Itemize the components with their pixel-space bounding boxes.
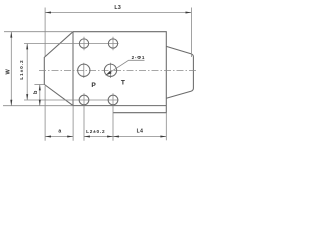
center tick bottom-right hole: [112, 93, 114, 107]
ext line bottom x=84: [83, 107, 85, 141]
svg-text:a: a: [58, 129, 61, 135]
dimension W line: [10, 32, 12, 106]
main centerline (dash-dot): [39, 70, 197, 72]
arrow L4 right: [160, 136, 166, 138]
bolt hole top-left: [79, 39, 88, 48]
arrow W top: [10, 32, 12, 38]
arrow leader 2-phi1: [106, 71, 112, 75]
arrow a right: [67, 136, 73, 138]
arrow L1 top: [26, 44, 28, 50]
arrow W bottom: [10, 100, 12, 106]
ext line W top: [4, 31, 73, 33]
arrow a left: [45, 136, 51, 138]
center tick port P: [83, 63, 85, 78]
ext line bottom x=73: [72, 106, 74, 141]
arrow L2 left: [84, 136, 90, 138]
arrow L3 right: [186, 12, 192, 14]
center tick bottom-left hole: [83, 93, 85, 107]
center tick top-right hole: [112, 37, 114, 51]
ext line bottom x=45: [44, 86, 46, 141]
svg-text:P: P: [91, 82, 96, 89]
dimension b line: [39, 85, 41, 106]
bolt hole top-right: [108, 39, 117, 48]
svg-text:T: T: [121, 79, 125, 86]
center tick port T: [110, 63, 112, 78]
svg-text:W: W: [5, 68, 11, 74]
plate body outline: [44, 32, 166, 113]
ext line L3 right: [190, 8, 192, 58]
ext line L3 left: [44, 8, 46, 57]
port hole T: [104, 64, 116, 76]
dimension L1 line: [26, 44, 28, 101]
arrow L2 right: [107, 136, 113, 138]
ext line W bottom: [3, 105, 73, 107]
bottom dim line a + L2 + L4: [45, 136, 73, 138]
arrow L1 bottom: [26, 94, 28, 100]
bolt hole bottom-right: [108, 95, 118, 105]
arrow L4 left: [113, 136, 119, 138]
ext line bottom x=166: [165, 113, 167, 141]
hole row center line top: [24, 43, 119, 45]
svg-text:L4: L4: [137, 129, 144, 135]
leader 2-phi1: [106, 60, 145, 75]
hole row center line bottom: [24, 99, 119, 101]
ext line b corner: [34, 84, 44, 86]
svg-text:L3: L3: [114, 5, 121, 11]
svg-text:L1±0.2: L1±0.2: [19, 59, 24, 79]
port hole P: [78, 64, 90, 76]
center tick top-left hole: [83, 37, 85, 51]
bevel edge line: [72, 32, 74, 106]
svg-text:b: b: [33, 90, 39, 94]
labels: [5, 5, 145, 134]
ext line bottom x=113: [112, 107, 114, 141]
arrowheads: [10, 12, 191, 138]
arrow b bottom: [39, 100, 41, 106]
arrow L3 left: [45, 12, 51, 14]
svg-text:2-Φ1: 2-Φ1: [132, 55, 146, 60]
dimension L3 line: [45, 12, 191, 14]
svg-text:L2±0.2: L2±0.2: [86, 129, 105, 134]
right boss (nozzle): [166, 46, 193, 98]
arrow b top: [39, 85, 41, 91]
bolt hole bottom-left: [79, 95, 89, 105]
